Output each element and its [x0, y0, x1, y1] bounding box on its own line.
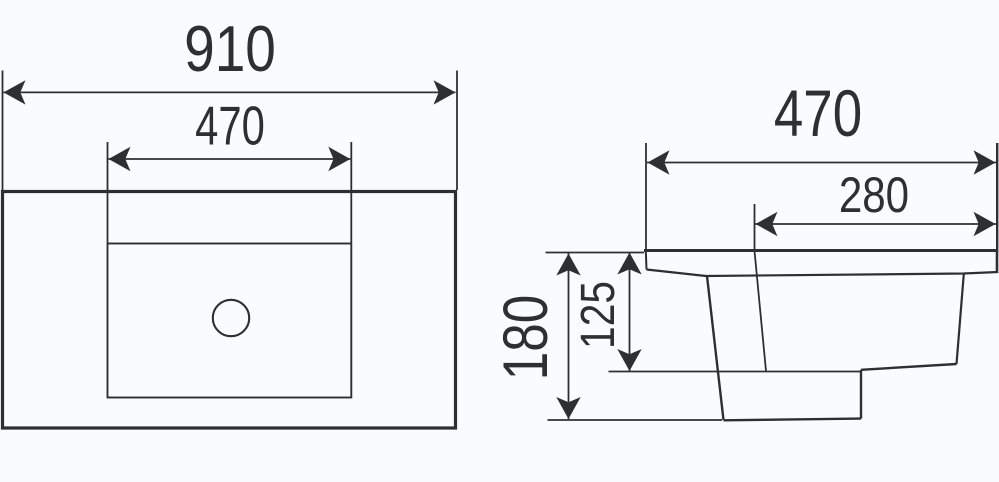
- dim 470 left: extension line left: [107, 142, 109, 244]
- dim 470 left: extension line right: [350, 142, 352, 244]
- side view: bowl inner wall line: [755, 252, 766, 371]
- side view: step line: [861, 364, 957, 370]
- dim 470 left: dimension line: [109, 158, 351, 160]
- dim 470 right: dimension line: [647, 162, 996, 164]
- drain hole circle: [213, 300, 249, 336]
- side view: bowl left wall: [707, 276, 724, 420]
- dim 280: left arrowhead: [756, 212, 778, 236]
- dim 910: extension line left: [2, 71, 4, 191]
- dim 470 right: right arrowhead: [974, 150, 996, 174]
- dim 910: dimension line: [4, 91, 456, 93]
- dim 125: bottom extension line: [609, 371, 861, 373]
- dim 280: dimension line: [755, 223, 996, 225]
- dim 180: bottom extension line: [548, 419, 723, 421]
- dim 910: left arrowhead: [4, 80, 26, 104]
- dim 910: extension line right: [456, 71, 458, 191]
- side view: pedestal right edge: [860, 370, 862, 419]
- svg-text:910: 910: [184, 12, 276, 85]
- svg-text:280: 280: [839, 167, 909, 223]
- side view: rim underside: [647, 270, 999, 277]
- svg-text:470: 470: [774, 76, 862, 150]
- dim 470 left: right arrowhead: [328, 147, 350, 171]
- side view: rim right edge: [996, 249, 999, 273]
- dim 125: bottom arrowhead: [617, 349, 641, 371]
- dim 125: top arrowhead: [617, 253, 641, 275]
- side view: pedestal bottom: [724, 419, 862, 421]
- side view: bowl right wall: [957, 274, 964, 364]
- dim 125: dimension line: [629, 252, 631, 371]
- dim 180: top arrowhead: [556, 254, 580, 276]
- dim 280: extension line left: [754, 204, 756, 251]
- dim 180: dimension line: [568, 253, 570, 419]
- dim 280: right arrowhead: [974, 212, 996, 236]
- dim 180: bottom arrowhead: [556, 397, 580, 419]
- svg-text:470: 470: [195, 96, 265, 157]
- dim 470 right: left arrowhead: [648, 150, 670, 174]
- dim 180: top extension line: [546, 252, 645, 254]
- svg-text:180: 180: [491, 295, 561, 381]
- dim 910: right arrowhead: [434, 80, 456, 104]
- side view: rim left edge: [645, 251, 648, 270]
- svg-text:125: 125: [571, 281, 625, 349]
- washbasin outer rectangle (top view): [3, 192, 456, 429]
- dim 470 left: left arrowhead: [109, 147, 131, 171]
- dim 470 right: extension line right: [996, 143, 998, 249]
- basin bowl rectangle (top view): [108, 244, 352, 398]
- dim 470 right: extension line left: [645, 143, 647, 250]
- side view: top face line: [644, 249, 998, 252]
